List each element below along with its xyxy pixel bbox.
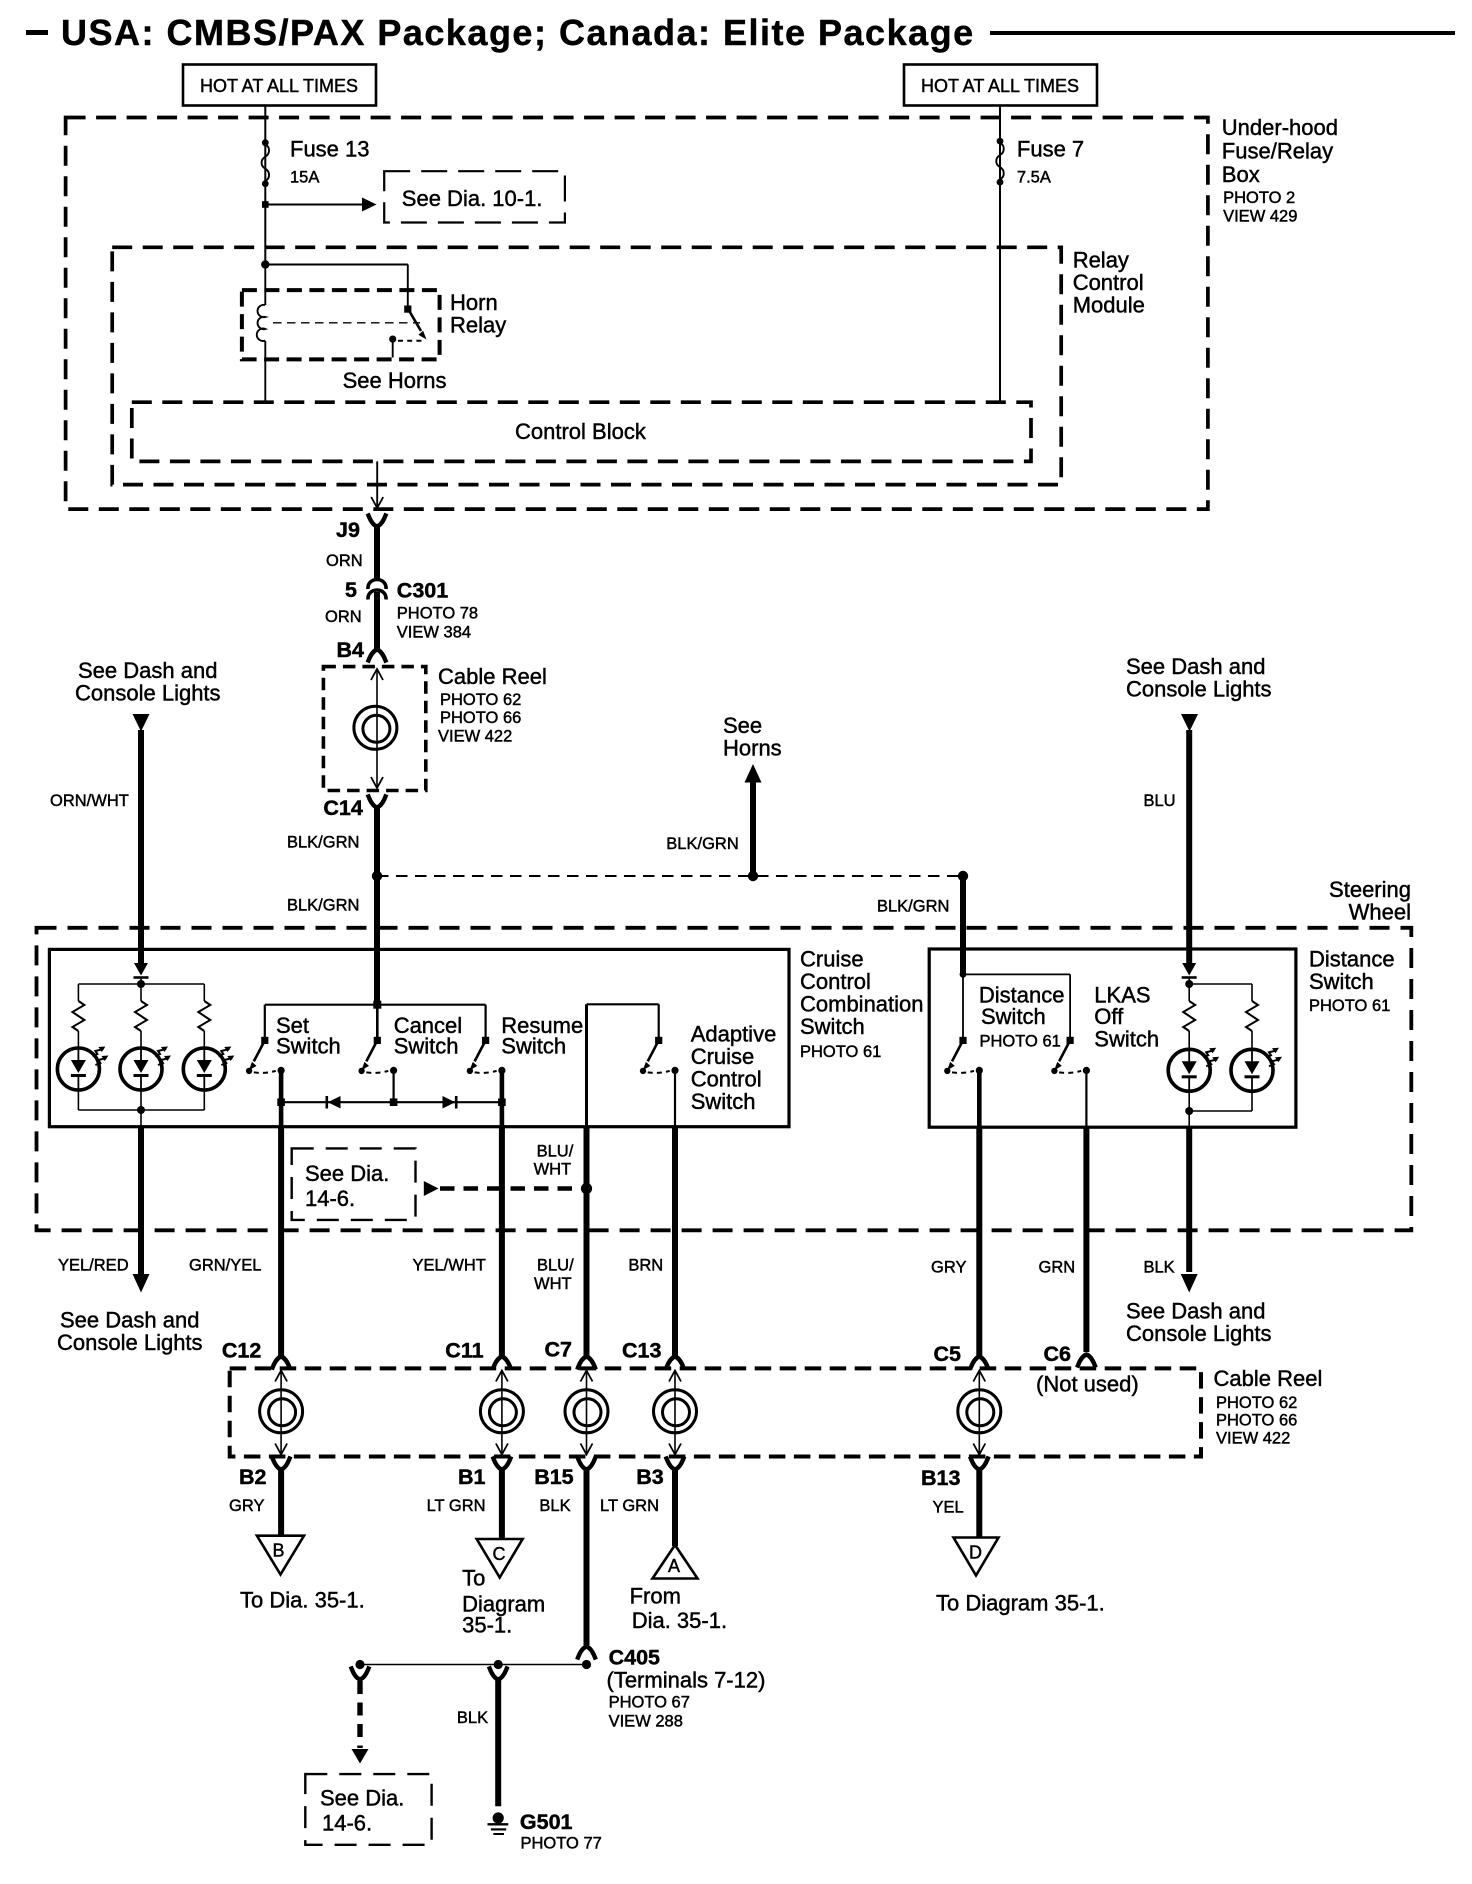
dashed wire to See Dia 14-6 [357, 1681, 362, 1748]
See Dia 14-6 arrow [424, 1181, 439, 1196]
svg-text:VIEW 422: VIEW 422 [1216, 1430, 1290, 1448]
junction square resume/diode rail [498, 1098, 506, 1106]
LED cluster bottom rail [77, 1090, 79, 1110]
svg-text:VIEW 429: VIEW 429 [1223, 208, 1297, 226]
svg-text:Dia. 35-1.: Dia. 35-1. [632, 1608, 727, 1633]
svg-text:Console Lights: Console Lights [1126, 677, 1272, 702]
resistor R5 [1246, 1001, 1258, 1031]
resistor R4 [1183, 1001, 1195, 1031]
svg-text:Switch: Switch [981, 1004, 1046, 1029]
wire from HOT box to fuse 13 [264, 106, 266, 265]
B15 end fork [578, 1647, 595, 1658]
C11 connector fork [493, 1357, 510, 1368]
svg-text:BLU/: BLU/ [537, 1257, 574, 1275]
wire junction to See Horns arrow [750, 782, 756, 876]
distance LED bottom rail [1251, 1091, 1253, 1111]
svg-text:BRN: BRN [628, 1257, 663, 1275]
svg-text:PHOTO 62: PHOTO 62 [440, 691, 521, 709]
BLU/WHT label (bottom) [534, 1257, 574, 1294]
From Dia. 35-1. label [630, 1584, 727, 1634]
ORN/WHT wire [138, 730, 144, 963]
Steering Wheel label [1329, 877, 1411, 925]
BLU/WHT junction dot [581, 1183, 592, 1194]
svg-text:Steering: Steering [1329, 877, 1411, 902]
cancel output wire [393, 1070, 395, 1102]
Cable Reel 1 label [438, 664, 547, 746]
wire B13 to triangle D [976, 1469, 982, 1538]
title rule line [990, 31, 1455, 35]
See Dia. 14-6. text (steering) [305, 1161, 389, 1211]
C7 connector fork [578, 1357, 595, 1368]
BLU/WHT label (steering) [534, 1143, 574, 1179]
svg-text:ORN: ORN [326, 552, 363, 570]
Distance Switch box label (outside) [1309, 947, 1395, 1016]
Resume Switch [467, 1037, 506, 1074]
relay actuation dashed line [273, 322, 420, 324]
diode rail [281, 1101, 502, 1103]
C6 connector fork [1078, 1355, 1095, 1366]
junction dot right [958, 871, 968, 881]
GRN/YEL wire below box [278, 1127, 284, 1357]
svg-text:B3: B3 [636, 1465, 664, 1489]
svg-text:Control: Control [1073, 270, 1144, 295]
connector triangle A [653, 1545, 698, 1579]
svg-text:GRY: GRY [229, 1497, 264, 1515]
Distance Switch [944, 1037, 983, 1074]
svg-text:B2: B2 [239, 1465, 267, 1489]
Distance Switch label (inside) [979, 983, 1065, 1051]
svg-text:WHT: WHT [534, 1275, 572, 1293]
svg-text:Adaptive: Adaptive [691, 1022, 777, 1047]
LED D3 [183, 1047, 234, 1091]
LED cluster top rail [78, 983, 204, 985]
illumination diode left cluster [134, 963, 148, 976]
LKAS Off Switch label [1094, 983, 1159, 1052]
svg-text:C301: C301 [397, 579, 448, 603]
svg-text:BLK/GRN: BLK/GRN [287, 834, 359, 852]
Horn Relay label [450, 290, 506, 338]
svg-text:Fuse/Relay: Fuse/Relay [1222, 139, 1333, 164]
svg-text:HOT AT ALL TIMES: HOT AT ALL TIMES [200, 76, 358, 96]
svg-text:LT GRN: LT GRN [600, 1497, 659, 1515]
svg-text:G501: G501 [520, 1810, 573, 1834]
svg-text:Relay: Relay [450, 313, 506, 338]
distance LED top rail [1189, 983, 1252, 985]
svg-text:14-6.: 14-6. [305, 1186, 355, 1211]
svg-text:C13: C13 [622, 1339, 661, 1363]
fuse 7 [996, 138, 1004, 186]
svg-text:Switch: Switch [800, 1014, 865, 1039]
svg-text:ORN/WHT: ORN/WHT [50, 792, 129, 810]
svg-text:J9: J9 [336, 518, 360, 542]
junction dot middle [748, 871, 758, 881]
C405 junction line [360, 1664, 588, 1666]
svg-text:Control Block: Control Block [515, 419, 647, 444]
resistor R1 [72, 1001, 84, 1031]
left dash lights arrow [133, 714, 150, 732]
C405 label [607, 1646, 766, 1731]
arrow to See Dia 14-6 [352, 1749, 369, 1764]
svg-text:Switch: Switch [276, 1034, 341, 1059]
svg-text:GRY: GRY [931, 1259, 966, 1277]
svg-text:See Dash and: See Dash and [1126, 1299, 1265, 1324]
See Horns label (middle) [723, 713, 782, 761]
cable reel 1 coil [354, 706, 397, 749]
svg-text:C: C [493, 1544, 506, 1564]
wire B3 to triangle A [672, 1469, 678, 1546]
adaptive cruise feed line [585, 1004, 588, 1126]
svg-text:Control: Control [691, 1067, 762, 1092]
svg-text:BLK: BLK [457, 1709, 488, 1727]
svg-text:C7: C7 [545, 1338, 573, 1362]
node top of LED cluster [140, 977, 142, 984]
svg-text:15A: 15A [290, 169, 319, 187]
svg-text:Combination: Combination [800, 992, 924, 1017]
svg-text:PHOTO 66: PHOTO 66 [440, 709, 521, 727]
LED cluster bottom node [137, 1106, 145, 1114]
C13 connector fork [667, 1357, 684, 1368]
svg-text:BLK/GRN: BLK/GRN [287, 897, 359, 915]
BLU/WHT wire below box [584, 1127, 590, 1357]
C405 node left [355, 1660, 364, 1669]
LED D2 [120, 1047, 171, 1091]
B2 connector cup [273, 1459, 290, 1470]
BLK ground wire [495, 1679, 501, 1806]
svg-text:B15: B15 [534, 1465, 573, 1489]
HOT AT ALL TIMES box right [904, 65, 1097, 106]
wire fuse13 coil to control block [264, 341, 266, 402]
svg-text:YEL/WHT: YEL/WHT [413, 1257, 486, 1275]
svg-text:Fuse 7: Fuse 7 [1017, 137, 1084, 162]
svg-text:PHOTO 61: PHOTO 61 [1309, 997, 1390, 1015]
svg-text:Module: Module [1073, 293, 1145, 318]
svg-text:See Dash and: See Dash and [1126, 654, 1265, 679]
BLU wire [1186, 730, 1192, 963]
See Dia. 14-6. dashed box (bottom) [305, 1774, 431, 1845]
svg-text:PHOTO 66: PHOTO 66 [1216, 1412, 1297, 1430]
See Dia. 14-6. text (bottom) [320, 1786, 404, 1836]
junction square at fuse 13 output [262, 201, 269, 208]
Steering Wheel dashed box [37, 928, 1412, 1231]
svg-text:Cable Reel: Cable Reel [1214, 1366, 1323, 1391]
svg-text:PHOTO 61: PHOTO 61 [980, 1033, 1061, 1051]
svg-text:D: D [969, 1543, 982, 1563]
svg-text:Switch: Switch [1309, 969, 1374, 994]
svg-text:Cable Reel: Cable Reel [438, 664, 547, 689]
svg-text:Cruise: Cruise [691, 1044, 755, 1069]
cable reel 1 internal wire with arrows [376, 670, 378, 787]
svg-text:Horns: Horns [723, 736, 782, 761]
svg-text:Box: Box [1222, 162, 1260, 187]
svg-text:BLK: BLK [1144, 1259, 1175, 1277]
cable reel 2 coil C11 [480, 1390, 523, 1433]
wire C14 down to junction [374, 807, 380, 876]
Cable Reel 1 dashed box [323, 667, 425, 791]
svg-text:BLK/GRN: BLK/GRN [877, 898, 949, 916]
right dash lights arrow [1181, 714, 1198, 732]
Under-hood Fuse/Relay Box dashed border [66, 118, 1208, 510]
svg-text:Console Lights: Console Lights [75, 681, 221, 706]
BLK wire below box [1186, 1127, 1192, 1272]
svg-text:Distance: Distance [1309, 947, 1395, 972]
Distance Switch box (solid) [929, 949, 1296, 1127]
svg-text:To Diagram 35-1.: To Diagram 35-1. [936, 1591, 1105, 1616]
cable reel 2 coil C12 [260, 1390, 303, 1433]
svg-text:Console Lights: Console Lights [57, 1330, 203, 1355]
svg-text:C6: C6 [1044, 1342, 1072, 1366]
svg-text:Control: Control [800, 969, 871, 994]
Relay Control Module label [1073, 248, 1145, 318]
junction square set/diode rail [277, 1098, 285, 1106]
cable reel 2 coil C5 [958, 1390, 1001, 1433]
ground branch cup [490, 1669, 507, 1680]
svg-text:VIEW 288: VIEW 288 [609, 1713, 683, 1731]
junction dashed line [377, 875, 963, 877]
svg-text:YEL/RED: YEL/RED [58, 1257, 129, 1275]
arrowhead control block output [371, 497, 383, 508]
wire junction to relay switch [265, 264, 408, 266]
wire to See Dia. 10-1. [265, 204, 364, 206]
horn relay output stub [392, 339, 394, 357]
horn relay switch arm arrowhead [418, 331, 426, 340]
svg-text:See Dia. 10-1.: See Dia. 10-1. [402, 186, 543, 211]
Set Switch [246, 1037, 285, 1074]
svg-text:PHOTO 77: PHOTO 77 [521, 1835, 602, 1853]
wire B2 to triangle B [278, 1469, 284, 1536]
svg-text:C12: C12 [222, 1339, 261, 1363]
diode D5 (right pointing) [443, 1096, 456, 1109]
svg-text:B: B [273, 1541, 285, 1561]
svg-text:YEL: YEL [933, 1499, 964, 1517]
G501 label [520, 1810, 602, 1853]
svg-text:See Horns: See Horns [343, 368, 447, 393]
svg-text:GRN/YEL: GRN/YEL [189, 1257, 261, 1275]
svg-text:HOT AT ALL TIMES: HOT AT ALL TIMES [921, 76, 1079, 96]
svg-text:See Dash and: See Dash and [60, 1308, 199, 1333]
svg-text:PHOTO 2: PHOTO 2 [1223, 189, 1295, 207]
svg-text:Console Lights: Console Lights [1126, 1321, 1272, 1346]
LED branch wires [77, 984, 79, 1001]
Set Switch label [276, 1013, 341, 1059]
horn relay dashed box [242, 290, 440, 359]
To Diagram 35-1. label [462, 1566, 545, 1638]
distance output wire GRY [977, 1070, 982, 1127]
svg-text:Horn: Horn [450, 290, 498, 315]
BLK arrow to dash lights [1181, 1274, 1198, 1293]
junction square BLK/GRN feed [373, 1001, 381, 1009]
cable reel 2 coil C13 [654, 1390, 697, 1433]
diode D4 (left pointing) [328, 1096, 341, 1109]
cable reel 2 wire C7 [586, 1371, 588, 1454]
svg-text:PHOTO 78: PHOTO 78 [397, 605, 478, 623]
Cancel Switch [358, 1037, 397, 1074]
lkas output wire [1085, 1070, 1087, 1127]
cable reel 2 wire C13 [674, 1371, 676, 1454]
wire J9 to C301 [374, 526, 380, 581]
wire from HOT box 2 to fuse 7 [999, 106, 1001, 403]
svg-text:(Terminals 7-12): (Terminals 7-12) [607, 1668, 766, 1693]
svg-text:To Dia. 35-1.: To Dia. 35-1. [240, 1588, 365, 1613]
wire control block output [376, 461, 378, 507]
svg-text:Relay: Relay [1073, 248, 1129, 273]
B13 connector cup [971, 1459, 988, 1470]
GRN wire below box [1083, 1127, 1089, 1352]
svg-text:35-1.: 35-1. [462, 1613, 512, 1638]
YEL/WHT wire below box [499, 1127, 505, 1357]
svg-text:C11: C11 [445, 1339, 483, 1363]
Adaptive Cruise Control Switch label [691, 1022, 777, 1115]
cable reel 2 wire C5 [978, 1371, 980, 1454]
svg-text:From: From [630, 1584, 681, 1609]
left branch cup [352, 1669, 369, 1680]
distance feed node [960, 971, 967, 978]
ACC output wire [674, 1070, 676, 1126]
svg-text:Switch: Switch [691, 1089, 756, 1114]
svg-text:C405: C405 [609, 1646, 660, 1670]
Cruise Control Combination Switch label [800, 947, 924, 1062]
C405 node middle [494, 1660, 503, 1669]
See Dash and Console Lights top left [75, 658, 221, 706]
YEL/RED arrow to dash lights [133, 1274, 150, 1293]
set switch branch [264, 1005, 266, 1041]
See Dash and Console Lights bottom right [1126, 1299, 1272, 1347]
svg-text:Under-hood: Under-hood [1222, 115, 1338, 140]
C301 label [397, 579, 478, 642]
lkas feed line [963, 973, 1070, 975]
Cruise Control Combination Switch box [49, 949, 789, 1126]
svg-text:B13: B13 [921, 1466, 960, 1490]
horn relay switch arm [408, 309, 421, 332]
Resume Switch label [501, 1013, 583, 1059]
wire B1 to triangle C [499, 1469, 505, 1540]
distance illumination diode [1182, 963, 1196, 976]
LKAS Off Switch [1051, 1037, 1090, 1074]
horn relay coil [257, 305, 266, 341]
B3 connector cup [667, 1459, 684, 1470]
See Dash and Console Lights top right [1126, 654, 1272, 702]
svg-text:See: See [723, 713, 762, 738]
connector triangle C [477, 1539, 523, 1578]
Under-hood Fuse/Relay Box label [1222, 115, 1338, 226]
junction square cancel/diode rail [390, 1098, 398, 1106]
B15 connector cup [578, 1459, 595, 1470]
wire junction right down [960, 876, 966, 974]
Control Block dashed box [132, 402, 1031, 461]
svg-text:To: To [462, 1566, 485, 1591]
GRY wire below box [976, 1127, 982, 1357]
wire B15 down [584, 1469, 590, 1645]
resume output wire [500, 1070, 505, 1126]
svg-text:(Not used): (Not used) [1036, 1372, 1139, 1397]
See Dash and Console Lights bottom left [57, 1308, 203, 1356]
svg-text:PHOTO 61: PHOTO 61 [800, 1043, 881, 1061]
arrowhead to See Dia. 10-1. [362, 198, 377, 212]
svg-text:LT GRN: LT GRN [427, 1497, 486, 1515]
Cable Reel 2 label [1214, 1366, 1323, 1448]
switch feed rail [265, 1004, 486, 1006]
svg-text:Wheel: Wheel [1349, 900, 1411, 925]
svg-text:Switch: Switch [501, 1034, 566, 1059]
svg-text:See Dash and: See Dash and [78, 658, 217, 683]
svg-text:Cruise: Cruise [800, 947, 864, 972]
J9 connector cup [369, 516, 386, 527]
svg-text:Off: Off [1094, 1004, 1124, 1029]
svg-text:Switch: Switch [394, 1034, 459, 1059]
svg-text:5: 5 [345, 578, 357, 602]
wire junction left down to switches [374, 876, 380, 1005]
svg-text:BLU: BLU [1144, 792, 1176, 810]
svg-text:VIEW 422: VIEW 422 [438, 728, 512, 746]
See Horns arrow [745, 764, 762, 783]
svg-text:BLK: BLK [539, 1497, 570, 1515]
LED D7 [1231, 1048, 1282, 1092]
svg-text:See Dia.: See Dia. [305, 1161, 389, 1186]
svg-text:See Dia.: See Dia. [320, 1786, 404, 1811]
LED D1 [57, 1047, 108, 1091]
horn relay switch top contact [404, 306, 411, 313]
svg-text:WHT: WHT [534, 1161, 572, 1179]
horn relay switch contact dot [389, 336, 396, 343]
wire down to relay switch contact [407, 265, 409, 309]
svg-text:7.5A: 7.5A [1017, 169, 1051, 187]
svg-text:BLU/: BLU/ [537, 1143, 574, 1161]
svg-text:A: A [668, 1556, 680, 1576]
title dash [26, 30, 48, 35]
C14 connector cup [369, 797, 386, 808]
svg-text:VIEW 384: VIEW 384 [397, 624, 471, 642]
B1 connector cup [493, 1459, 510, 1470]
svg-text:ORN: ORN [325, 608, 362, 626]
C301 connector pair [368, 580, 386, 590]
connector triangle D [954, 1538, 999, 1576]
resistor R2 [135, 1001, 147, 1031]
YEL/RED wire below box [138, 1127, 144, 1274]
See Dia. 10-1. dashed box [384, 171, 565, 222]
cancel switch branch [376, 1005, 379, 1040]
svg-text:14-6.: 14-6. [322, 1811, 372, 1836]
junction dot above horn relay [261, 260, 269, 268]
svg-text:C5: C5 [934, 1342, 962, 1366]
C5 connector fork [971, 1357, 988, 1368]
C405 node right [582, 1660, 591, 1669]
See Dia. 14-6. dashed box (steering) [292, 1148, 416, 1220]
svg-text:Switch: Switch [1094, 1027, 1159, 1052]
cable reel 2 coil C7 [565, 1390, 608, 1433]
Cable Reel 2 dashed box [230, 1368, 1201, 1456]
svg-text:PHOTO 62: PHOTO 62 [1216, 1394, 1297, 1412]
cable reel 2 wire C12 [280, 1371, 282, 1454]
svg-text:B4: B4 [337, 638, 365, 662]
BRN wire below box [672, 1127, 678, 1357]
B4 connector fork [369, 650, 386, 661]
set output wire [279, 1070, 284, 1126]
svg-text:PHOTO 67: PHOTO 67 [609, 1694, 690, 1712]
ground G501 [488, 1812, 509, 1834]
thick dashed link to BLU/WHT [440, 1186, 578, 1191]
svg-text:BLK/GRN: BLK/GRN [666, 835, 738, 853]
svg-text:USA: CMBS/PAX Package; Canada:: USA: CMBS/PAX Package; Canada: Elite Pac… [61, 12, 975, 53]
connector triangle B [257, 1536, 304, 1575]
junction dot left [372, 871, 382, 881]
Cancel Switch label [394, 1013, 462, 1059]
Relay Control Module dashed border [112, 247, 1061, 484]
LED D6 [1168, 1048, 1219, 1092]
wire into horn relay coil [264, 265, 266, 306]
resume switch branch [485, 1005, 487, 1041]
horn relay switch dashed contact line [398, 340, 424, 342]
HOT AT ALL TIMES box left [183, 65, 376, 106]
resistor R3 [198, 1001, 210, 1031]
